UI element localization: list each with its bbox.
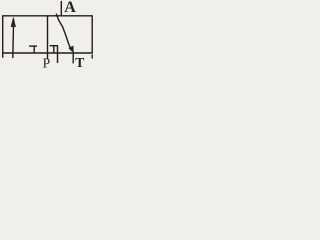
wire: port P line from bar down through box edge xyxy=(57,46,59,63)
wire: port A stub above right box xyxy=(60,1,62,16)
blocked port symbol in right box: bar xyxy=(50,45,58,47)
wire: left flow line continuing below box xyxy=(12,19,15,58)
valve body outer box (left edge extends below as stub) xyxy=(3,16,93,58)
svg-text:T: T xyxy=(75,55,84,70)
paper background xyxy=(0,0,98,77)
arrowhead of left flow path xyxy=(11,17,16,27)
blocked port symbol in left box: stem xyxy=(33,46,35,53)
wire: right edge stub below box xyxy=(91,55,93,59)
blocked port symbol in right box: stem xyxy=(53,46,55,53)
flow path diagonal in right box xyxy=(56,14,71,51)
position divider with stub below xyxy=(47,16,49,59)
svg-text:P: P xyxy=(43,56,51,71)
arrowhead of right diagonal flow path xyxy=(69,46,74,53)
blocked port symbol in left box: bar xyxy=(29,45,37,47)
svg-text:A: A xyxy=(64,0,76,16)
wire: port T stub below box xyxy=(72,53,74,63)
